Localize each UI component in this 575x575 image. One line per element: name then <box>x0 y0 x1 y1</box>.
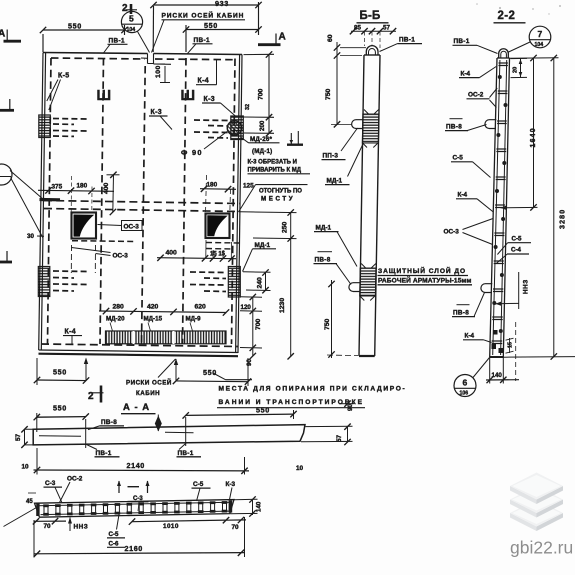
svg-text:ПРИВАРИТЬ К МД: ПРИВАРИТЬ К МД <box>248 168 302 174</box>
slab chords <box>38 502 233 514</box>
inner dashed vertical x51 <box>48 58 52 344</box>
svg-text:550: 550 <box>204 21 218 30</box>
svg-text:45: 45 <box>26 499 33 505</box>
label PP-3 <box>322 128 358 160</box>
svg-text:ПП-3: ПП-3 <box>323 153 339 160</box>
label PV-8 on A-A <box>88 419 124 430</box>
dimension 280 bottom strip <box>99 304 229 316</box>
svg-text:С-5: С-5 <box>512 236 523 243</box>
panel right edge (double line) <box>236 55 242 354</box>
svg-text:ПВ-1: ПВ-1 <box>109 38 126 45</box>
svg-text:ПВ-8: ПВ-8 <box>315 257 331 264</box>
embedded plate left upper (hatched) <box>39 115 51 138</box>
svg-text:5: 5 <box>129 14 134 24</box>
label S-5 on 1-1 <box>192 481 211 501</box>
svg-text:57: 57 <box>383 25 390 32</box>
label PV-1 2-2 <box>453 38 498 54</box>
svg-text:РАБОЧЕЙ АРМАТУРЫ-15мм: РАБОЧЕЙ АРМАТУРЫ-15мм <box>378 276 471 285</box>
labels S-5 / S-4 2-2 <box>496 236 531 264</box>
top extension line to dims <box>510 57 559 59</box>
note privarit k MD <box>248 168 311 174</box>
vertical dimension 1640 <box>501 55 538 211</box>
dashed stubs left block2 <box>53 271 88 291</box>
label PV-8 2-2 lower <box>452 293 485 317</box>
title A-A <box>121 402 156 414</box>
label K-4 2-2 top <box>459 67 496 78</box>
svg-text:10: 10 <box>22 464 30 471</box>
dimension 420 bottom strip <box>147 304 159 311</box>
embedded block 1 in B-B bar <box>362 110 379 148</box>
svg-text:933: 933 <box>215 0 229 8</box>
opening right frame <box>206 214 230 239</box>
svg-text:700: 700 <box>258 88 265 100</box>
bottom embedded strip MD hatched <box>106 331 227 344</box>
svg-text:550: 550 <box>68 22 82 31</box>
panel left edge (double line) <box>39 53 46 351</box>
svg-text:А: А <box>0 29 5 40</box>
svg-text:ПВ-8: ПВ-8 <box>446 124 462 131</box>
label PV-8 B-B <box>314 252 352 285</box>
label S-3 small under 1-1 <box>132 496 149 511</box>
small dim 15 near bar bottom <box>506 338 514 353</box>
svg-text:ННЗ: ННЗ <box>74 524 89 531</box>
lifting loop top of 2-2 bar <box>499 49 509 58</box>
svg-text:К-3: К-3 <box>226 481 236 488</box>
axis symbol on slab <box>155 415 162 432</box>
2-2 bar outline <box>490 58 510 357</box>
label F90 <box>181 132 227 158</box>
svg-text:1640: 1640 <box>530 127 537 147</box>
label OS-3 2-2 <box>444 219 494 245</box>
svg-text:С-3: С-3 <box>45 480 56 487</box>
title 2-2 <box>494 10 526 23</box>
svg-text:140: 140 <box>256 501 263 512</box>
svg-text:К-4: К-4 <box>465 333 475 340</box>
dimension 550 top-right <box>183 21 262 52</box>
opening left frame <box>72 213 97 239</box>
support extension line right <box>185 417 187 446</box>
NNZ arrow label <box>68 517 88 531</box>
gbi22 logo slab <box>510 500 563 532</box>
dimension 2140 <box>34 448 250 475</box>
svg-text:20: 20 <box>513 67 519 73</box>
leaders from left callout circle <box>10 171 44 239</box>
dimension 140 right of 1-1 <box>231 496 263 516</box>
svg-text:Ш: Ш <box>181 88 196 104</box>
label S-3 <box>44 480 63 503</box>
svg-text:ПВ-8: ПВ-8 <box>453 310 469 317</box>
vertical dims 700/200 top right <box>243 51 274 136</box>
small dim 20 top right of bar <box>511 58 528 77</box>
svg-text:Ф 90: Ф 90 <box>181 148 203 157</box>
svg-text:РИСКИ ОСЕЙ: РИСКИ ОСЕЙ <box>126 379 172 387</box>
scan speckles <box>476 3 561 15</box>
svg-text:3280: 3280 <box>560 209 567 229</box>
dimension 620 bottom strip <box>195 304 207 311</box>
svg-text:60: 60 <box>327 34 334 42</box>
svg-text:180: 180 <box>207 182 218 189</box>
svg-text:С-4: С-4 <box>511 247 522 254</box>
svg-text:2-2: 2-2 <box>498 10 516 22</box>
svg-text:МД-20: МД-20 <box>106 316 125 323</box>
dashed stubs right block1 <box>194 120 228 138</box>
label OS-3 boxed <box>98 221 143 231</box>
label 10 right <box>296 465 304 472</box>
dimension 2160 <box>34 517 245 558</box>
label MD-9 <box>186 316 202 332</box>
inner dashed horizontal top <box>51 58 235 60</box>
dimension 550 A-A left <box>34 404 89 433</box>
label K-4 2-2 bottom <box>463 333 492 343</box>
vertical dimension 100 at notch <box>154 64 171 83</box>
svg-text:ПВ-1: ПВ-1 <box>96 450 112 457</box>
svg-text:ПВ-1: ПВ-1 <box>399 37 415 44</box>
svg-text:620: 620 <box>195 304 207 311</box>
section mark 1 left margin lower <box>0 251 12 262</box>
svg-text:К-3: К-3 <box>204 96 215 103</box>
svg-text:А - А: А - А <box>123 402 150 413</box>
svg-text:6: 6 <box>463 378 468 388</box>
svg-text:КАБИН: КАБИН <box>136 390 160 397</box>
embedded block 2 in B-B bar <box>360 264 376 301</box>
dims 85 57 top of B-B <box>350 25 396 49</box>
bottom extension line 2-2 <box>503 356 575 359</box>
label K-3 center <box>149 109 172 130</box>
section mark 1 right <box>287 131 303 145</box>
svg-text:МЕСТА ДЛЯ ОПИРАНИЯ ПРИ СКЛАДИР: МЕСТА ДЛЯ ОПИРАНИЯ ПРИ СКЛАДИРО- <box>219 386 407 393</box>
dimension 400 bottom <box>157 240 236 262</box>
dashed row below right opening <box>206 243 240 250</box>
support extension line left <box>85 419 87 448</box>
dashed stubs left block1 <box>53 119 88 137</box>
label MD-1 upper <box>325 145 363 185</box>
label MD-15 <box>144 316 163 332</box>
dashed stubs right block2 <box>190 272 226 292</box>
label OS-2 <box>60 476 83 503</box>
svg-text:К-4: К-4 <box>65 329 76 336</box>
svg-text:РИСКИ ОСЕЙ КАБИН: РИСКИ ОСЕЙ КАБИН <box>162 11 245 20</box>
label K-5 top-left <box>47 73 70 111</box>
dims 120/700/90 bottom right <box>240 294 262 366</box>
label PV-1 B-B <box>380 37 423 52</box>
vertical dimension 250 right <box>240 209 297 241</box>
svg-text:90: 90 <box>246 359 253 366</box>
label MD-20 <box>106 316 125 332</box>
label PV-8 2-2 upper <box>445 119 487 131</box>
svg-text:400: 400 <box>103 182 110 194</box>
label K-4 2-2 middle <box>456 192 493 213</box>
svg-text:400: 400 <box>166 250 178 257</box>
leader diagonal bottom-left <box>4 508 37 527</box>
detail callout circle 7/104 <box>508 26 551 52</box>
svg-text:ННЗ: ННЗ <box>523 279 530 294</box>
lifting loop PV-1 top of bar <box>366 46 378 55</box>
dimension 1010 <box>129 517 229 530</box>
svg-text:К-4: К-4 <box>458 192 468 199</box>
svg-text:ПВ-1: ПВ-1 <box>194 37 211 44</box>
dimension 180 right <box>200 175 236 214</box>
dimension 57 A-A right <box>301 424 353 446</box>
bottom dashed horizontal <box>41 344 238 347</box>
dimension 140 bottom 2-2 <box>486 357 519 384</box>
svg-text:С-3: С-3 <box>133 496 143 502</box>
svg-text:250: 250 <box>282 221 289 233</box>
svg-text:Ш: Ш <box>97 88 112 104</box>
svg-text:МД-15: МД-15 <box>144 316 163 323</box>
section designation 1 - 1 <box>117 481 150 494</box>
svg-text:32: 32 <box>245 104 251 110</box>
vertical dim 750 lower B-B <box>324 280 358 358</box>
svg-text:85: 85 <box>354 25 361 32</box>
note otognut po mestu <box>239 185 308 212</box>
NNZ level mark 2-2 <box>495 272 529 309</box>
svg-text:10: 10 <box>296 465 304 472</box>
dimension 933 top <box>150 0 261 52</box>
svg-text:375: 375 <box>52 184 63 191</box>
section mark A top-left <box>0 29 21 42</box>
section 1-1 slab outline <box>35 500 235 518</box>
dashed row below left opening <box>72 240 135 243</box>
svg-text:ВАНИИ И ТРАНСПОРТИРОВКЕ: ВАНИИ И ТРАНСПОРТИРОВКЕ <box>219 399 365 406</box>
svg-text:А: А <box>279 32 286 43</box>
gbi22 logo slab <box>510 486 563 518</box>
embedded plate right lower (hatched) <box>228 267 240 298</box>
label MD-26 <box>241 136 280 143</box>
section mark A top-right <box>258 32 286 45</box>
vertical dim 60 B-B <box>327 34 366 124</box>
svg-text:МЕСТУ: МЕСТУ <box>261 196 295 203</box>
section mark 2 top <box>122 3 137 14</box>
dimension 375 left <box>38 176 114 213</box>
inner dashed vertical x235 <box>232 59 236 345</box>
svg-text:ОС-3: ОС-3 <box>113 253 129 260</box>
svg-text:15: 15 <box>508 342 514 348</box>
label 45 left end <box>26 493 36 505</box>
svg-text:С-5: С-5 <box>193 481 204 488</box>
svg-text:57: 57 <box>15 433 22 441</box>
detail callout circle 5/104 <box>121 11 149 52</box>
stirrups with rebar dots <box>36 500 232 516</box>
svg-text:С-5: С-5 <box>109 531 120 538</box>
svg-text:700: 700 <box>255 318 262 330</box>
svg-text:70: 70 <box>232 524 240 531</box>
2-2 bar inner cage verticals <box>493 60 507 355</box>
svg-text:7: 7 <box>538 29 543 39</box>
svg-text:2140: 2140 <box>127 461 145 470</box>
svg-text:К-3 ОБРЕЗАТЬ И: К-3 ОБРЕЗАТЬ И <box>248 160 297 166</box>
svg-text:ОС-2: ОС-2 <box>468 92 484 99</box>
hook 1 on 2-2 bar <box>485 120 496 129</box>
dimension 30 left edge <box>27 233 44 240</box>
vertical dimension 240 right <box>243 269 271 293</box>
section mark 2 bottom <box>88 386 104 403</box>
svg-text:ПВ-8: ПВ-8 <box>101 419 117 426</box>
label MD-1 right <box>243 242 277 272</box>
support arrow 1 <box>84 358 88 381</box>
note riski osey kabin bottom <box>126 359 176 397</box>
2-2 bar rungs and rebar dots <box>492 63 508 353</box>
svg-text:gbi22.ru: gbi22.ru <box>510 538 573 558</box>
label K-4 top-right <box>196 60 217 85</box>
hook 1 on B-B bar <box>352 120 363 129</box>
svg-text:ОС-3: ОС-3 <box>444 229 460 236</box>
svg-text:140: 140 <box>492 372 503 379</box>
title B-B <box>357 10 389 23</box>
svg-text:70: 70 <box>44 523 52 530</box>
support arrow 2 <box>174 359 178 381</box>
labels S-5 / S-6 below <box>107 515 125 548</box>
svg-text:420: 420 <box>147 304 159 311</box>
label PV-1 A-A left <box>87 445 120 458</box>
svg-text:2160: 2160 <box>125 544 143 553</box>
svg-text:(МД-1): (МД-1) <box>252 148 272 155</box>
dimension 550 bottom-left <box>34 358 89 385</box>
panel bottom edge <box>39 350 239 356</box>
svg-text:57: 57 <box>336 434 343 442</box>
dimension 125 right <box>243 183 254 190</box>
svg-text:ОС-2: ОС-2 <box>67 476 83 483</box>
svg-text:120: 120 <box>241 304 252 311</box>
long dashed horizontal mid 1 <box>44 201 240 204</box>
dimension 70 left <box>33 518 66 530</box>
dimension 70 right <box>226 517 246 531</box>
note RISKI OSEY KABIN <box>152 11 246 53</box>
dimension 550 bottom-right <box>173 358 251 386</box>
svg-text:30: 30 <box>27 233 34 240</box>
hole F90 circle <box>227 121 241 135</box>
svg-text:180: 180 <box>77 183 88 190</box>
vertical dim 750 B-B <box>325 88 352 127</box>
svg-text:125: 125 <box>243 183 254 190</box>
svg-text:МД-9: МД-9 <box>186 316 202 323</box>
svg-text:106: 106 <box>460 390 469 396</box>
left edge thick tick <box>40 198 61 202</box>
label PV-1 A-A right <box>177 443 202 457</box>
dashed extension right of bar bottom <box>515 322 517 381</box>
inner dashed vertical x103 (cabin axis) <box>100 58 104 344</box>
vertical dimension 1230 right <box>279 239 294 360</box>
svg-text:МД-1: МД-1 <box>255 242 271 249</box>
label PV-1 top-right <box>188 37 213 54</box>
svg-text:ПВ-1: ПВ-1 <box>454 38 470 45</box>
label S-5 2-2 upper <box>451 155 491 178</box>
svg-text:МД-1: МД-1 <box>316 225 332 232</box>
svg-text:ЗАЩИТНЫЙ СЛОЙ ДО: ЗАЩИТНЫЙ СЛОЙ ДО <box>378 266 466 275</box>
svg-text:550: 550 <box>53 368 67 377</box>
svg-text:750: 750 <box>325 88 332 100</box>
svg-text:104: 104 <box>535 42 544 48</box>
note zashchitny sloy <box>378 266 473 285</box>
svg-text:Б-Б: Б-Б <box>360 10 381 22</box>
svg-text:ПВ-1: ПВ-1 <box>178 450 194 457</box>
label OS-2 2-2 <box>467 88 498 108</box>
label K-4 bottom-left <box>63 329 82 346</box>
svg-text:К-5: К-5 <box>58 73 69 80</box>
inner dashed vertical x145 (center) <box>142 66 146 344</box>
embedded plate left lower (hatched) <box>38 267 50 297</box>
svg-text:МД-26*: МД-26* <box>250 136 273 143</box>
svg-text:К-4: К-4 <box>461 71 471 78</box>
dimension 57 A-A left <box>15 426 33 448</box>
svg-text:100: 100 <box>155 65 162 78</box>
panel top edge <box>43 53 242 55</box>
section mark 1 left margin <box>0 99 14 110</box>
detail callout circle 6/106 <box>454 358 490 397</box>
label K-3 on 1-1 <box>226 481 236 500</box>
B-B bar outline <box>359 55 380 356</box>
label OS-3 lower <box>72 248 129 260</box>
svg-text:280: 280 <box>113 304 125 311</box>
section A-A slab outline <box>33 425 305 445</box>
inner dashed vertical x186 (cabin axis) <box>183 58 187 344</box>
slab center line segments <box>39 432 194 436</box>
svg-text:ОС-3: ОС-3 <box>124 224 140 231</box>
long dashed horizontal mid 2 <box>44 209 240 212</box>
left margin callout circle <box>0 164 12 185</box>
svg-text:240: 240 <box>257 277 264 289</box>
svg-text:К-3: К-3 <box>151 109 162 116</box>
svg-text:200: 200 <box>259 120 266 131</box>
svg-text:С-5: С-5 <box>453 155 464 162</box>
svg-text:1010: 1010 <box>163 523 179 530</box>
svg-text:550: 550 <box>203 368 217 377</box>
svg-text:104: 104 <box>127 27 136 33</box>
dimension 550 top-left <box>40 22 128 53</box>
svg-text:1230: 1230 <box>279 298 286 313</box>
label MD-1 lower <box>314 225 357 267</box>
label PV-1 top-left <box>104 38 128 54</box>
svg-text:С-6: С-6 <box>109 541 120 548</box>
embedded plate right upper (hatched) <box>231 116 244 140</box>
dimension 550 A-A right <box>183 406 297 420</box>
hook 2 on 2-2 bar <box>481 284 492 293</box>
hook 2 on B-B bar <box>349 283 360 292</box>
vertical dimension 400 left <box>103 172 120 216</box>
note mesta dlya opiraniya <box>213 373 406 408</box>
svg-text:90: 90 <box>347 404 354 411</box>
svg-text:К-4: К-4 <box>198 78 209 85</box>
small dim marks top right of slab <box>339 401 354 412</box>
svg-text:750: 750 <box>324 318 331 330</box>
vertical dimension 3280 <box>551 55 567 360</box>
svg-text:550: 550 <box>53 404 67 413</box>
gbi22 logo slab <box>510 473 563 505</box>
svg-text:МД-1: МД-1 <box>327 178 343 185</box>
note K-3 obrezat <box>248 160 297 166</box>
svg-text:ОТОГНУТЬ ПО: ОТОГНУТЬ ПО <box>259 189 302 195</box>
panel top notch <box>141 54 171 65</box>
label (MD-1) <box>252 148 272 155</box>
label K-3 top-right <box>202 96 237 117</box>
vertical ext below left opening <box>71 245 95 273</box>
label 10 left <box>22 464 30 471</box>
svg-text:550: 550 <box>256 406 270 415</box>
